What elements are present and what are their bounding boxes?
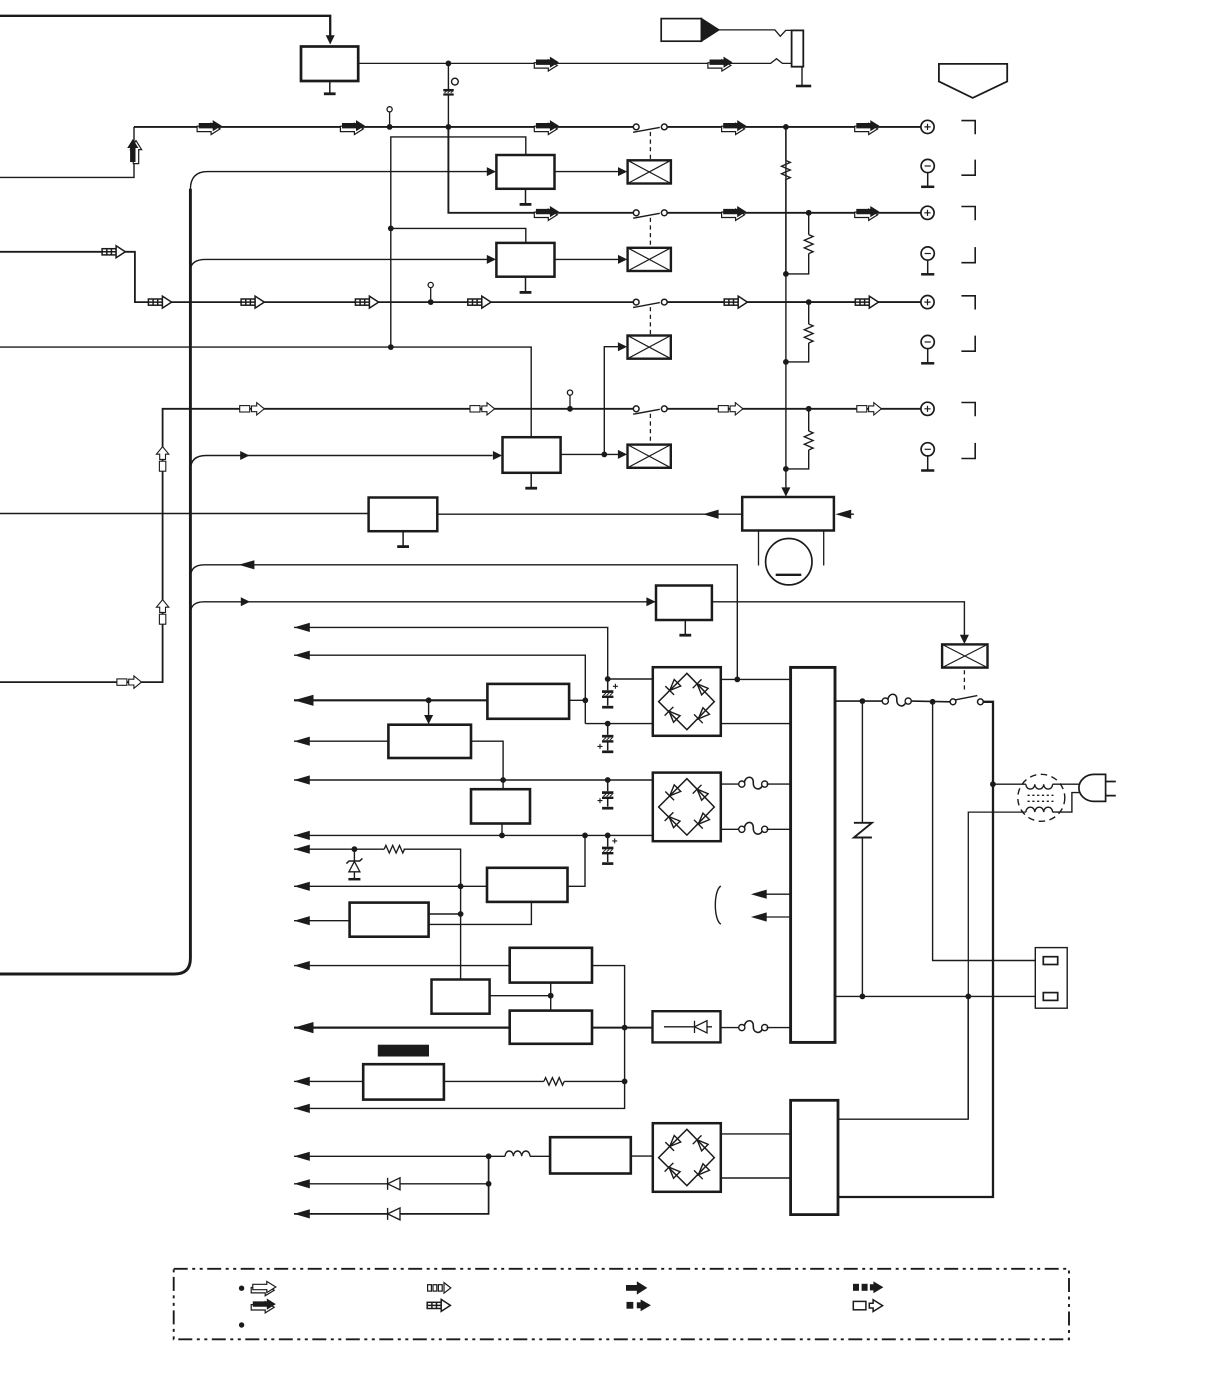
filter capacitor C4 — [598, 780, 614, 808]
fuse label black bar — [378, 1045, 429, 1057]
bus cable volume control — [0, 189, 190, 974]
speaker terminal ch2 minus — [921, 247, 934, 274]
wire input to mute box — [0, 513, 369, 515]
connector bracket ch1 plus — [961, 121, 975, 135]
wire driver4 input from volume bus — [190, 456, 492, 471]
wire transformer primary neutral — [835, 995, 1043, 997]
signal arrow up on riser — [127, 139, 141, 164]
relay contact SW4 — [633, 406, 667, 414]
junction switch node — [930, 699, 936, 705]
wire rectified plus to bridge1 — [608, 678, 653, 680]
box arrow up riser b — [156, 600, 168, 625]
junction varistor bottom — [860, 994, 866, 1000]
box arrow ch4 c — [718, 403, 743, 415]
line filter core — [1028, 795, 1054, 801]
wire box J out to filter node — [838, 998, 968, 1120]
junction node A — [446, 61, 452, 67]
legend square solid arrow — [627, 1299, 651, 1311]
junction B out on rail V5 — [500, 777, 506, 783]
arrow into driver1 — [487, 167, 496, 176]
wire rectified minus to bridge1 — [585, 723, 652, 725]
junction rail V7 vertical — [458, 883, 464, 889]
wire filter bottom to plug — [1053, 793, 1080, 813]
test terminal ch4 — [567, 390, 573, 412]
speaker terminal ch1 plus — [921, 120, 934, 133]
wire input L channel riser — [0, 127, 134, 177]
AC plug body — [1079, 774, 1106, 801]
ground relay driver — [679, 620, 691, 635]
junction R4 to bus — [783, 466, 789, 472]
power relay coil K5 — [942, 644, 987, 667]
connector bracket ch4 plus — [961, 403, 975, 417]
junction driver4 out — [601, 452, 607, 458]
junction regulator A out — [582, 697, 588, 703]
connector bracket ch2 plus — [961, 207, 975, 221]
signal arrow ch1 c — [534, 120, 559, 134]
bus arrow ch3 a — [148, 296, 171, 308]
legend white arrow — [251, 1281, 276, 1295]
filter capacitor C3 — [598, 724, 614, 752]
wire power input to system control — [0, 16, 330, 40]
ground jack sleeve — [796, 67, 811, 86]
disconnect diode box to transformer — [721, 1021, 791, 1033]
arrow left standby rail — [294, 961, 310, 970]
wire driver2 to relay coil2 — [555, 258, 620, 260]
bus arrow ch3 input — [102, 246, 125, 258]
wire rail V8 to box E — [294, 920, 350, 922]
junction box D drop on rail V6 — [582, 833, 588, 839]
junction cap2 node — [605, 721, 611, 727]
power indicator lamp — [766, 539, 812, 585]
wire standby supply rail bold — [294, 1026, 510, 1028]
wire bridge4 out top — [720, 1133, 791, 1135]
bridge rectifier BR1 — [653, 667, 721, 736]
wire regulator C bottom — [501, 824, 503, 836]
ground driver2 — [520, 277, 532, 293]
legend black arrow 3d — [251, 1299, 276, 1313]
standby box F — [510, 948, 592, 983]
junction C bottom on rail V6 — [499, 833, 505, 839]
speaker terminal ch4 plus — [921, 402, 934, 415]
relay coil K1 — [628, 160, 671, 183]
arrow left rail V5 — [294, 775, 310, 784]
wire rail V2 to pcb — [294, 655, 585, 723]
zener diode D1 — [346, 849, 362, 879]
junction link node — [548, 993, 554, 999]
dashed link K4 to SW4 — [649, 414, 651, 444]
switch supply box D — [487, 868, 568, 902]
dashed link K5 to power switch — [963, 670, 965, 689]
arrow left zener row — [294, 845, 310, 854]
sub transformer box G — [432, 980, 490, 1014]
speaker terminal ch3 minus — [921, 335, 934, 363]
wire main vertical sense bus to protector — [785, 127, 787, 492]
system control box U1 — [301, 47, 358, 82]
bus arrow ch3 b — [241, 296, 264, 308]
arrow left rail V4 — [294, 737, 310, 746]
arrow left rail V6 — [294, 831, 310, 840]
wire driver4 out to relay coil3 — [604, 347, 619, 455]
arrow left rail V8 — [294, 916, 310, 925]
arrow left rail V7 — [294, 882, 310, 891]
wire relay drive line — [190, 602, 656, 614]
filter capacitor C2 — [602, 679, 618, 707]
line filter dashed circle — [1018, 774, 1065, 821]
wire box D out up to rail V6 — [568, 835, 586, 886]
legend bullet 1 — [239, 1286, 244, 1291]
arrow left loop return — [294, 1104, 310, 1113]
junction R3 to bus — [783, 359, 789, 365]
junction AC live filter branch — [990, 781, 996, 787]
junction regulator branch — [426, 697, 432, 703]
wire record output feed — [0, 346, 391, 348]
varistor link — [854, 701, 872, 996]
wire box E out 2 to box D bottom — [429, 902, 532, 925]
diode D2 — [388, 1178, 400, 1190]
wire filter top to plug — [1053, 783, 1081, 785]
feedback bus ch1 ch2 — [391, 137, 526, 347]
legend segmented arrow small — [428, 1283, 451, 1294]
junction feedback ch4 — [388, 344, 394, 350]
brace aux outputs — [715, 886, 720, 924]
arrow on driver4 input — [240, 451, 249, 460]
signal arrow ch1 e — [855, 120, 880, 134]
relay driver box — [656, 586, 712, 621]
sense resistor R3 — [786, 302, 813, 362]
wire aux input to ch4 riser — [0, 409, 633, 682]
relay coil K3 — [628, 336, 671, 359]
wire bridge4 out bottom — [720, 1177, 791, 1179]
control box E — [350, 903, 429, 937]
wire rail V5 to bridge2 — [294, 779, 653, 781]
wire box E out 1 — [429, 913, 461, 915]
wire bridge1 to transformer bottom — [720, 723, 791, 725]
wire protector to mute box — [437, 513, 742, 515]
wire channel1 line to relay contact — [134, 126, 633, 128]
wire box F out loop — [294, 966, 625, 1109]
bridge rectifier BR4 — [653, 1123, 721, 1192]
arrowhead into system control box — [326, 35, 335, 44]
wire detect line to bridge node — [190, 565, 737, 680]
box arrow up riser a — [156, 447, 168, 472]
box arrow ch4 a — [240, 403, 265, 415]
wire switch to AC live column — [983, 701, 992, 703]
legend hatched arrow — [427, 1299, 450, 1311]
wire disconnect to switch — [911, 700, 950, 703]
wire to driver4 top — [391, 347, 531, 437]
connector bracket ch2 minus — [961, 247, 975, 263]
arrow left heater row — [294, 1152, 310, 1161]
connector bracket ch4 minus — [961, 443, 975, 459]
wire relay driver to power relay — [712, 602, 965, 639]
arrow into driver2 — [487, 255, 496, 264]
signal arrow ch2 c — [855, 206, 880, 220]
relay coil K4 — [628, 445, 671, 468]
junction ch2 sense — [806, 210, 812, 216]
dashed link K3 to SW3 — [649, 307, 651, 335]
wire rail V7 to box D — [294, 885, 487, 887]
wire driver2 input from volume bus — [190, 259, 487, 270]
line filter winding bottom — [1026, 807, 1053, 812]
junction fan row on loop — [622, 1079, 628, 1085]
driver box ch4 — [503, 437, 561, 473]
fan box — [363, 1064, 444, 1099]
relay contact SW2 — [633, 210, 667, 218]
wire rail V4 to pcb — [294, 740, 388, 742]
wire heater row to transformer box I — [294, 1155, 550, 1157]
headphone amp triangle — [701, 19, 719, 42]
legend double square arrow — [853, 1281, 883, 1293]
arrow right on relay drive line — [241, 597, 250, 606]
connector bracket ch3 plus — [961, 296, 975, 310]
disconnect bridge2 lower — [721, 822, 791, 834]
bridge rectifier BR2 — [653, 773, 721, 842]
surge resistor R5 — [384, 845, 404, 853]
power transformer T1 — [791, 667, 835, 1042]
arrow into driver4 — [493, 451, 502, 460]
wire U1 output to headphone jack ring — [358, 59, 791, 64]
arrow left diode row 1 — [294, 1179, 310, 1188]
series resistor R6 — [544, 1078, 564, 1086]
protector box — [742, 497, 834, 531]
wire ch2 to speaker terminal — [667, 212, 921, 214]
wire regulator B out down — [471, 741, 503, 789]
signal arrow ch1 b — [340, 120, 365, 134]
speaker system pentagon symbol — [939, 64, 1007, 98]
ground driver4 — [525, 473, 537, 488]
speaker terminal ch1 minus — [921, 159, 934, 186]
signal arrow ch2 a — [534, 206, 559, 220]
legend bullet 2 — [239, 1322, 244, 1327]
transformer aux output 2 — [751, 912, 791, 921]
wire standby rail to box F — [294, 965, 510, 967]
speaker terminal ch2 plus — [921, 206, 934, 219]
speaker terminal ch3 plus — [921, 296, 934, 309]
arrow left fan row — [294, 1077, 310, 1086]
transformer aux output 1 — [751, 890, 791, 899]
driver box ch2 — [496, 243, 554, 277]
arrow left rail V1 — [294, 623, 310, 632]
wire ch4 to speaker terminal — [667, 408, 921, 410]
junction box E out on vertical — [458, 911, 464, 917]
arrow into relay driver box — [646, 597, 655, 606]
wire ch2 line from mute node — [448, 127, 633, 213]
relay contact SW3 — [633, 299, 667, 307]
relay coil K2 — [628, 248, 671, 271]
junction cap4 node — [605, 833, 611, 839]
wire live branch to line filter — [993, 783, 1026, 785]
AC switch box I — [550, 1137, 631, 1173]
wire box J out bold to power switch — [838, 702, 993, 1197]
junction feedback ch2 — [388, 226, 394, 232]
wire diode row 2 — [294, 1156, 489, 1214]
wire switch node down to selector pin1 — [933, 702, 1044, 961]
disconnect bridge2 upper — [721, 777, 791, 789]
bus arrow ch3 f — [855, 296, 878, 308]
power switch S1 — [950, 696, 983, 705]
wire feedback to driver2 top — [391, 228, 526, 243]
wire to jack tip contact — [719, 30, 792, 36]
relay contact SW1 — [633, 124, 667, 132]
junction detect on bridge1 wire — [734, 677, 740, 683]
junction cap3 node — [605, 777, 611, 783]
dashed link K2 to SW2 — [649, 218, 651, 248]
arrow left on detect line — [239, 560, 255, 569]
driver box ch1 — [496, 155, 554, 189]
disconnect primary — [882, 694, 911, 706]
wire driver4 to relay coil4 — [561, 453, 619, 455]
arrow left diode row 2 — [294, 1209, 310, 1218]
box arrow ch4 b — [470, 403, 495, 415]
wire filter bottom to neutral column — [968, 812, 1026, 1119]
arrow into relay coil4 — [618, 450, 627, 459]
wire diode row 1 — [294, 1183, 489, 1185]
regulator box C — [471, 789, 530, 823]
test terminal ch1 — [387, 107, 393, 130]
bus arrow ch3 c — [355, 296, 378, 308]
ground mute box — [397, 531, 409, 546]
arrow left toward mute box — [703, 510, 719, 519]
connector bracket ch1 minus — [961, 160, 975, 176]
arrow into protector box — [781, 487, 790, 496]
arrow left rail V2 — [294, 651, 310, 660]
dashed link K1 to SW1 — [649, 132, 651, 159]
sub regulator box B — [388, 725, 471, 758]
regulator box A — [487, 684, 569, 719]
box arrow ch4 d — [857, 403, 882, 415]
sense resistor R4 — [786, 409, 813, 469]
wire fan row to loop — [294, 1080, 625, 1082]
bus arrow ch3 d — [468, 296, 491, 308]
signal arrow on jack ring wire 2 — [708, 57, 733, 71]
AC input box J — [791, 1100, 838, 1214]
wire ch3 to speaker terminal — [667, 301, 921, 303]
wire branch down to sub regulator — [428, 700, 430, 719]
ground system control — [324, 81, 336, 94]
wire regulator A out — [569, 699, 585, 701]
wire bridge1 to transformer top — [720, 678, 791, 680]
arrow into sub regulator — [424, 715, 433, 724]
wire box I to bridge4 — [631, 1155, 652, 1157]
signal arrow ch2 b — [722, 206, 747, 220]
wire ch1 to speaker terminal — [667, 126, 921, 128]
wire main rail to regulator — [294, 699, 487, 701]
ground driver1 — [520, 189, 532, 205]
junction filter neutral — [965, 994, 971, 1000]
choke coil L1 — [505, 1151, 530, 1156]
voltage selector connector — [1035, 948, 1067, 1009]
junction ch3 sense — [806, 299, 812, 305]
capacitor C1 coupling to mute line — [443, 63, 458, 127]
arrow left standby supply — [294, 1022, 314, 1033]
junction varistor top — [860, 698, 866, 704]
diode box — [653, 1011, 721, 1042]
junction zener node — [352, 846, 358, 852]
junction ch1 sense — [783, 124, 789, 130]
junction ch1 mute node — [446, 124, 452, 130]
line filter winding top arcs — [1026, 784, 1053, 789]
wire rail V1 to pcb — [294, 627, 608, 678]
wire input R channel to ch3 line — [0, 252, 633, 302]
junction cap1 node — [605, 676, 611, 682]
arrow into relay coil3 — [618, 342, 627, 351]
wire zener row — [294, 849, 461, 979]
arrow into relay coil2 — [618, 255, 627, 264]
signal arrow ch1 d — [722, 120, 747, 134]
signal arrow ch1 a — [197, 120, 222, 134]
junction diode row 1 — [486, 1181, 492, 1187]
link box F to box H — [550, 983, 552, 1011]
sense resistor R2 — [786, 213, 813, 274]
headphone jack plug body — [792, 30, 804, 66]
wire driver1 input from volume bus — [190, 172, 487, 190]
filter capacitor C5 — [602, 835, 617, 863]
junction ch4 sense — [806, 406, 812, 412]
legend solid arrow — [626, 1281, 647, 1294]
wire box G to link — [490, 995, 551, 997]
wire driver1 to relay coil1 — [555, 171, 620, 173]
mute box — [369, 498, 438, 532]
arrow into relay coil1 — [618, 167, 627, 176]
junction R2 to bus — [783, 271, 789, 277]
diode D3 — [388, 1208, 400, 1220]
indicator collar — [759, 531, 824, 566]
speaker terminal ch4 minus — [921, 443, 934, 471]
standby rectifier box H — [510, 1011, 592, 1044]
arrow into power relay — [960, 635, 969, 644]
arrow left main rail — [294, 695, 314, 706]
box arrow ch4 input — [117, 676, 142, 688]
connector bracket ch3 minus — [961, 336, 975, 352]
legend open square arrow — [853, 1300, 882, 1312]
wire box H to diode box — [592, 1027, 653, 1029]
bus arrow ch3 e — [724, 296, 747, 308]
wire rail V6 to bridge2 lower — [294, 834, 653, 836]
junction loop on box H out — [622, 1025, 628, 1031]
signal arrow on jack ring wire — [534, 57, 559, 71]
AC plug prongs — [1106, 782, 1116, 796]
sense resistor R1 — [782, 127, 791, 274]
junction heater node — [486, 1153, 492, 1159]
legend border — [174, 1269, 1069, 1340]
wire transformer primary hot — [835, 700, 883, 702]
stub arrow into protector right — [835, 510, 854, 519]
test terminal ch3 — [428, 282, 434, 305]
headphone source box — [661, 19, 701, 42]
